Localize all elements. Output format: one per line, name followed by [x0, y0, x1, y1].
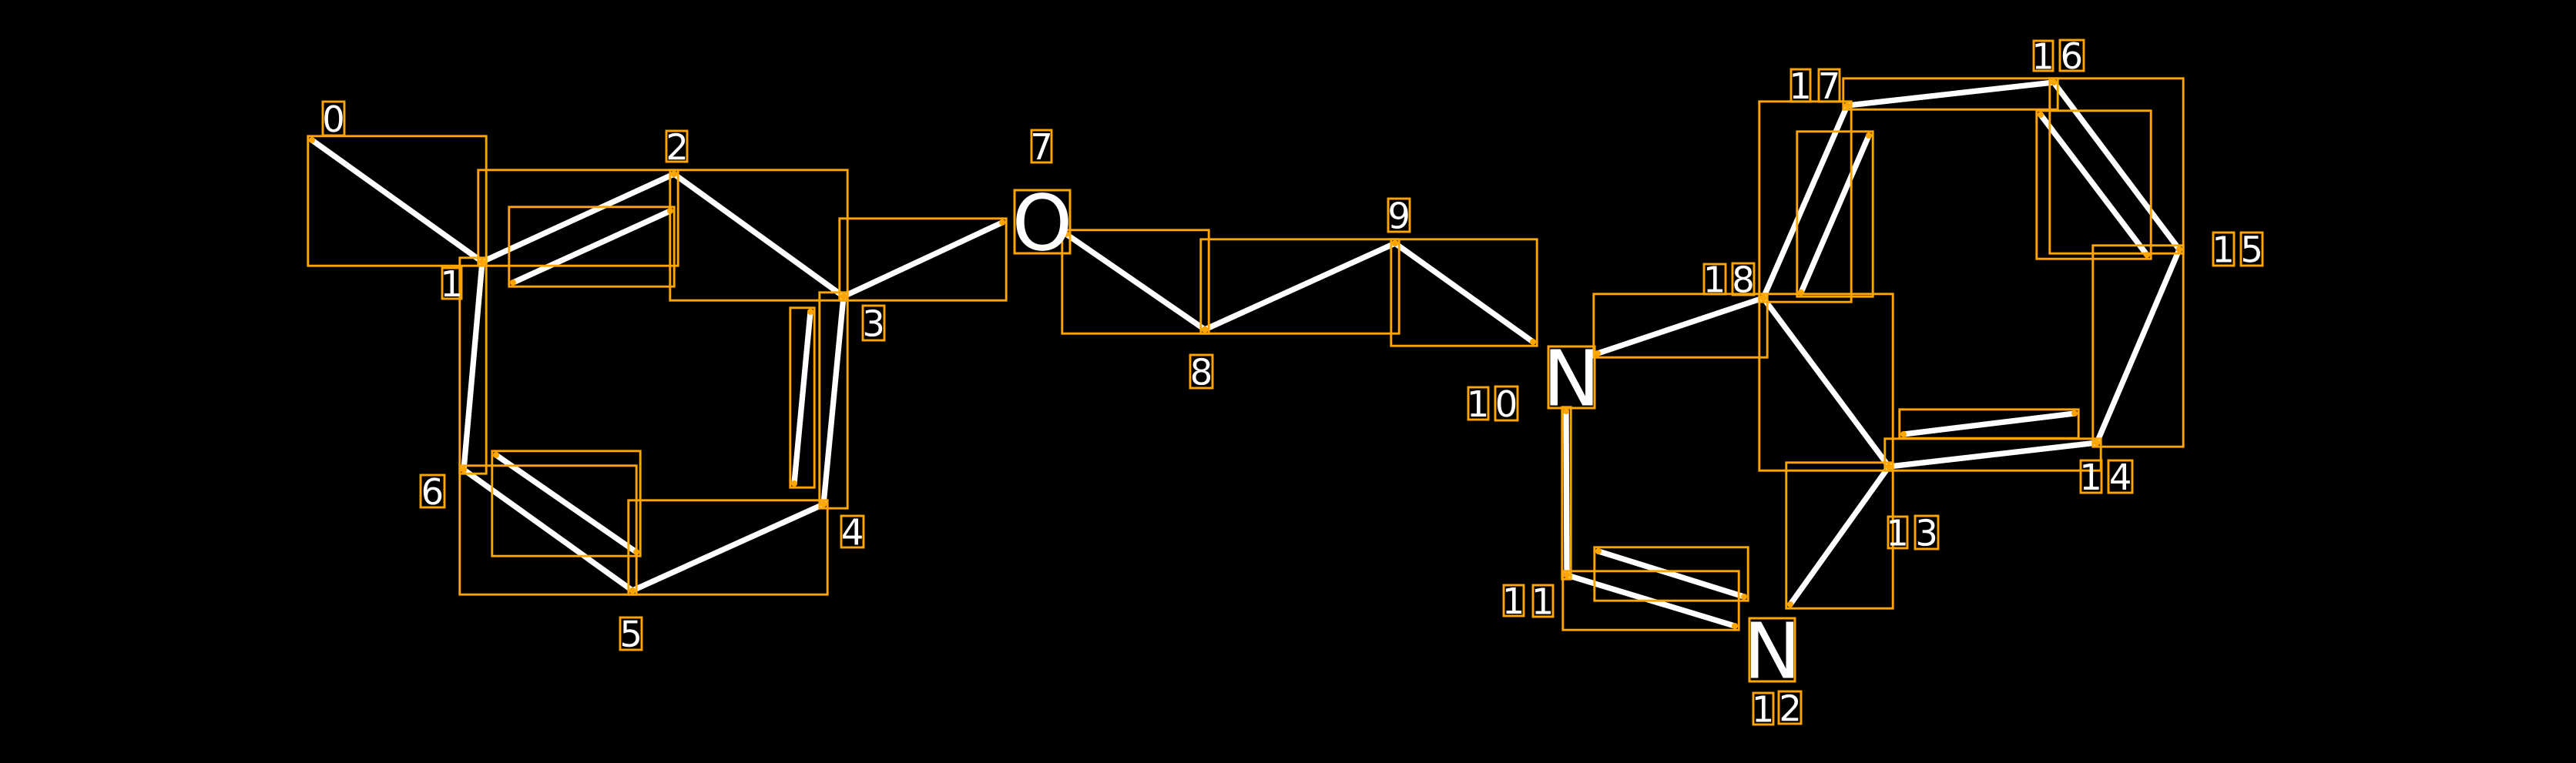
bond 17-18 (double, main) endpoint dot B	[1760, 295, 1766, 301]
bond 6-1 bounding box	[460, 258, 486, 474]
bond 3-7 bounding box	[840, 219, 1006, 300]
oxygen atom O7 symbol box	[1015, 190, 1070, 253]
atom 17 index label char 2 "7" box	[1819, 69, 1840, 102]
bond 1-2 (double, main) bounding box	[478, 170, 678, 266]
atom 11 index label char 2 "1" digit	[1535, 588, 1551, 614]
bond 10-11 endpoint dot A	[1563, 408, 1569, 414]
bond 4-5 endpoint dot A	[820, 501, 827, 507]
atom 14 index label char 2 "4" box	[2108, 460, 2132, 493]
bond 3-4 (double, main)	[823, 296, 844, 504]
bond 4-5	[632, 504, 823, 591]
atom 14 index label char 2 "4" digit	[2111, 463, 2130, 490]
atom 12 index label char 2 "2" digit	[1782, 694, 1799, 721]
bond 14-15 endpoint dot B	[2176, 246, 2182, 253]
bond 10-11 endpoint dot B	[1564, 572, 1570, 578]
atom 3 index label digit	[865, 310, 882, 336]
bond 17-18 (double, inner)	[1801, 136, 1869, 293]
bond 15-16 (double, inner)	[2041, 115, 2147, 255]
bond 10-11	[1566, 411, 1567, 575]
atom 16 index label char 1 "1" box	[2034, 41, 2053, 71]
bond 13-14 (double, main) endpoint dot B	[2094, 440, 2100, 446]
atom 9 index label box	[1388, 199, 1410, 232]
atom 4 index label box	[841, 516, 864, 547]
bond 11-12 (double, main)	[1567, 575, 1735, 626]
atom 18 index label char 1 "1" digit	[1707, 266, 1722, 293]
bond 16-17 endpoint dot A	[2051, 79, 2057, 85]
bond 0-1 endpoint dot B	[479, 259, 485, 265]
atom 16 index label char 2 "6" digit	[2063, 42, 2081, 69]
bond 7-8 bounding box	[1062, 230, 1209, 333]
atom 1 index label box	[442, 268, 461, 299]
bond 13-18	[1763, 298, 1889, 467]
bond 0-1 bounding box	[308, 136, 486, 266]
bond 8-9	[1205, 243, 1395, 330]
bond 9-10 endpoint dot A	[1392, 240, 1398, 246]
bond 14-15 bounding box	[2093, 246, 2183, 447]
bond 2-3 endpoint dot B	[840, 293, 847, 300]
atom 16 index label char 2 "6" box	[2060, 40, 2084, 71]
bond 5-6 (double, inner) bounding box	[492, 451, 640, 556]
atom 6 index label box	[421, 475, 444, 507]
bond 13-14 (double, main)	[1889, 443, 2097, 467]
bond 18-10 endpoint dot B	[1595, 350, 1601, 356]
atom 15 index label char 2 "5" box	[2241, 233, 2262, 266]
bond 11-12 (double, main) endpoint dot A	[1564, 572, 1570, 578]
bond 14-15 endpoint dot A	[2094, 440, 2100, 446]
atom 11 index label char 1 "1" digit	[1506, 587, 1521, 614]
atom 1 index label digit	[444, 270, 459, 296]
oxygen atom O7 letter	[1016, 192, 1068, 251]
atom 4 index label digit	[843, 519, 862, 545]
atom 13 index label char 1 "1" digit	[1890, 520, 1905, 546]
bond 13-14 (double, inner) endpoint dot B	[2071, 410, 2078, 417]
bond 13-18 endpoint dot A	[1886, 463, 1892, 470]
bond 9-10 endpoint dot B	[1530, 339, 1536, 345]
bond 16-17 bounding box	[1843, 79, 2058, 109]
bond 1-2 (double, inner) endpoint dot A	[510, 279, 516, 286]
atom 7 index label box	[1031, 130, 1052, 162]
bond 4-5 endpoint dot B	[629, 587, 636, 594]
bond 3-4 (double, inner) endpoint dot A	[807, 309, 813, 315]
bond 3-4 (double, inner)	[794, 312, 810, 484]
atom 11 index label char 2 "1" box	[1533, 585, 1553, 617]
bond 0-1	[312, 140, 482, 262]
bond 15-16 (double, inner) endpoint dot A	[2144, 252, 2150, 258]
bond 18-10	[1598, 298, 1763, 353]
bond 7-8 endpoint dot A	[1063, 231, 1069, 237]
bond 2-3	[674, 174, 844, 296]
atom 18 index label char 2 "8" box	[1732, 263, 1754, 295]
atom 13 index label char 2 "3" box	[1915, 516, 1938, 549]
bond 13-18 endpoint dot B	[1760, 295, 1766, 301]
bond 1-2 (double, inner) endpoint dot B	[667, 208, 673, 214]
bond 6-1	[464, 262, 482, 470]
bond 14-15	[2097, 249, 2179, 443]
atom 0 index label digit	[324, 105, 342, 132]
bond 1-2 (double, main) endpoint dot A	[479, 259, 485, 265]
bond 5-6 (double, inner) endpoint dot A	[633, 549, 639, 555]
atom 5 index label box	[620, 617, 642, 650]
bond 15-16 (double, main) bounding box	[2050, 79, 2183, 253]
bond 12-13 endpoint dot A	[1787, 601, 1793, 607]
bond 12-13 endpoint dot B	[1886, 463, 1892, 470]
nitrogen atom N12 letter	[1751, 622, 1793, 678]
bond 3-4 (double, main) endpoint dot A	[840, 293, 847, 300]
bond 13-14 (double, inner) bounding box	[1900, 410, 2078, 438]
atom 2 index label box	[666, 131, 687, 162]
atom 12 index label char 2 "2" box	[1779, 691, 1801, 724]
bond 7-8	[1066, 234, 1205, 330]
bond 12-13 bounding box	[1786, 463, 1893, 608]
bond 11-12 (double, inner) bounding box	[1595, 547, 1748, 601]
atom 18 index label char 1 "1" box	[1704, 264, 1726, 294]
bond 18-10 endpoint dot A	[1760, 295, 1766, 301]
atom 0 index label box	[323, 102, 344, 136]
bond 5-6 (double, main)	[464, 470, 632, 591]
bond 9-10 bounding box	[1391, 239, 1537, 346]
bond 12-13	[1790, 467, 1889, 604]
bond 11-12 (double, main) bounding box	[1563, 571, 1739, 630]
atom 18 index label char 2 "8" digit	[1734, 266, 1752, 293]
nitrogen atom N10 symbol box	[1548, 346, 1595, 408]
atom 15 index label char 1 "1" box	[2213, 233, 2234, 266]
bond 17-18 (double, main) bounding box	[1759, 102, 1851, 302]
bond 16-17 endpoint dot B	[1844, 102, 1850, 109]
atom 17 index label char 1 "1" digit	[1793, 72, 1808, 99]
bond 11-12 (double, main) endpoint dot B	[1732, 623, 1738, 629]
bond 13-14 (double, inner)	[1903, 413, 2075, 434]
bond 17-18 (double, inner) endpoint dot B	[1798, 289, 1804, 296]
atom 16 index label char 1 "1" digit	[2035, 43, 2051, 69]
bond 5-6 (double, inner) endpoint dot B	[493, 452, 499, 458]
bond 13-14 (double, main) endpoint dot A	[1886, 463, 1892, 470]
bond 3-4 (double, main) bounding box	[820, 293, 847, 508]
bond 8-9 bounding box	[1201, 239, 1399, 333]
atom 9 index label digit	[1390, 202, 1407, 229]
atom 8 index label digit	[1192, 358, 1210, 385]
bond 3-7 endpoint dot B	[999, 219, 1005, 226]
atom 8 index label box	[1190, 355, 1213, 388]
bond 3-4 (double, inner) bounding box	[790, 308, 814, 487]
atom 14 index label char 1 "1" digit	[2083, 463, 2098, 490]
atom 6 index label digit	[424, 477, 441, 504]
bond 1-2 (double, main)	[482, 174, 674, 262]
bond 15-16 (double, main)	[2054, 82, 2179, 249]
bond 15-16 (double, main) endpoint dot B	[2051, 79, 2057, 85]
bond 5-6 (double, main) endpoint dot B	[461, 467, 467, 473]
bond 10-11 bounding box	[1562, 407, 1571, 579]
atom 17 index label char 2 "7" digit	[1821, 72, 1838, 99]
atom 10 index label char 1 "1" digit	[1471, 390, 1486, 417]
bond 15-16 (double, inner) endpoint dot B	[2038, 112, 2044, 118]
bond 1-2 (double, main) endpoint dot B	[671, 171, 677, 177]
bond 2-3 bounding box	[670, 170, 847, 300]
bond 8-9 endpoint dot A	[1202, 326, 1208, 333]
bond 2-3 endpoint dot A	[671, 171, 677, 177]
atom 13 index label char 1 "1" box	[1888, 517, 1907, 548]
bond 17-18 (double, inner) bounding box	[1797, 132, 1873, 296]
bond 16-17	[1847, 82, 2054, 105]
bond 5-6 (double, main) endpoint dot A	[629, 587, 636, 594]
bond 8-9 endpoint dot B	[1392, 240, 1398, 246]
bond 0-1 endpoint dot A	[309, 137, 315, 143]
bond 17-18 (double, main)	[1763, 105, 1847, 298]
bond 6-1 endpoint dot A	[461, 467, 467, 473]
bond 11-12 (double, inner)	[1598, 551, 1744, 597]
bond 17-18 (double, main) endpoint dot A	[1844, 102, 1850, 109]
bond 1-2 (double, inner)	[513, 211, 670, 283]
nitrogen atom N10 letter	[1550, 350, 1592, 406]
atom 14 index label char 1 "1" box	[2081, 460, 2101, 493]
bond 1-2 (double, inner) bounding box	[509, 207, 674, 286]
atom 3 index label box	[863, 306, 884, 340]
bond 3-4 (double, main) endpoint dot B	[820, 501, 827, 507]
atom 15 index label char 1 "1" digit	[2215, 236, 2231, 263]
atom 10 index label char 2 "0" digit	[1498, 390, 1515, 417]
atom 15 index label char 2 "5" digit	[2243, 236, 2260, 263]
bond 15-16 (double, inner) bounding box	[2037, 111, 2151, 259]
atom 5 index label digit	[622, 621, 639, 648]
atom 7 index label digit	[1033, 133, 1050, 159]
bond 18-10 bounding box	[1594, 294, 1767, 357]
bond 17-18 (double, inner) endpoint dot A	[1866, 132, 1872, 139]
bond 6-1 endpoint dot B	[479, 259, 485, 265]
bond 13-14 (double, inner) endpoint dot A	[1900, 431, 1907, 437]
bond 3-7 endpoint dot A	[840, 293, 847, 300]
bond 13-18 bounding box	[1759, 294, 1893, 470]
atom 17 index label char 1 "1" box	[1791, 69, 1810, 102]
atom 10 index label char 2 "0" box	[1495, 387, 1518, 420]
bond 3-4 (double, inner) endpoint dot B	[791, 480, 797, 487]
nitrogen atom N12 symbol box	[1749, 618, 1795, 681]
atom 12 index label char 1 "1" box	[1753, 693, 1773, 725]
bond 5-6 (double, inner)	[496, 455, 636, 552]
bond 15-16 (double, main) endpoint dot A	[2176, 246, 2182, 253]
atom 11 index label char 1 "1" box	[1504, 585, 1524, 616]
bond 11-12 (double, inner) endpoint dot A	[1595, 548, 1602, 554]
atom 2 index label digit	[669, 133, 686, 160]
bond 4-5 bounding box	[629, 500, 827, 594]
atom 12 index label char 1 "1" digit	[1756, 696, 1771, 722]
bond 13-14 (double, main) bounding box	[1885, 439, 2101, 470]
bond 11-12 (double, inner) endpoint dot B	[1741, 594, 1747, 600]
atom 13 index label char 2 "3" digit	[1918, 519, 1935, 546]
bond 9-10	[1395, 243, 1533, 342]
bond 7-8 endpoint dot B	[1202, 326, 1208, 333]
bond 3-7	[844, 223, 1002, 296]
atom 10 index label char 1 "1" box	[1468, 387, 1488, 420]
bond 5-6 (double, main) bounding box	[460, 466, 636, 594]
